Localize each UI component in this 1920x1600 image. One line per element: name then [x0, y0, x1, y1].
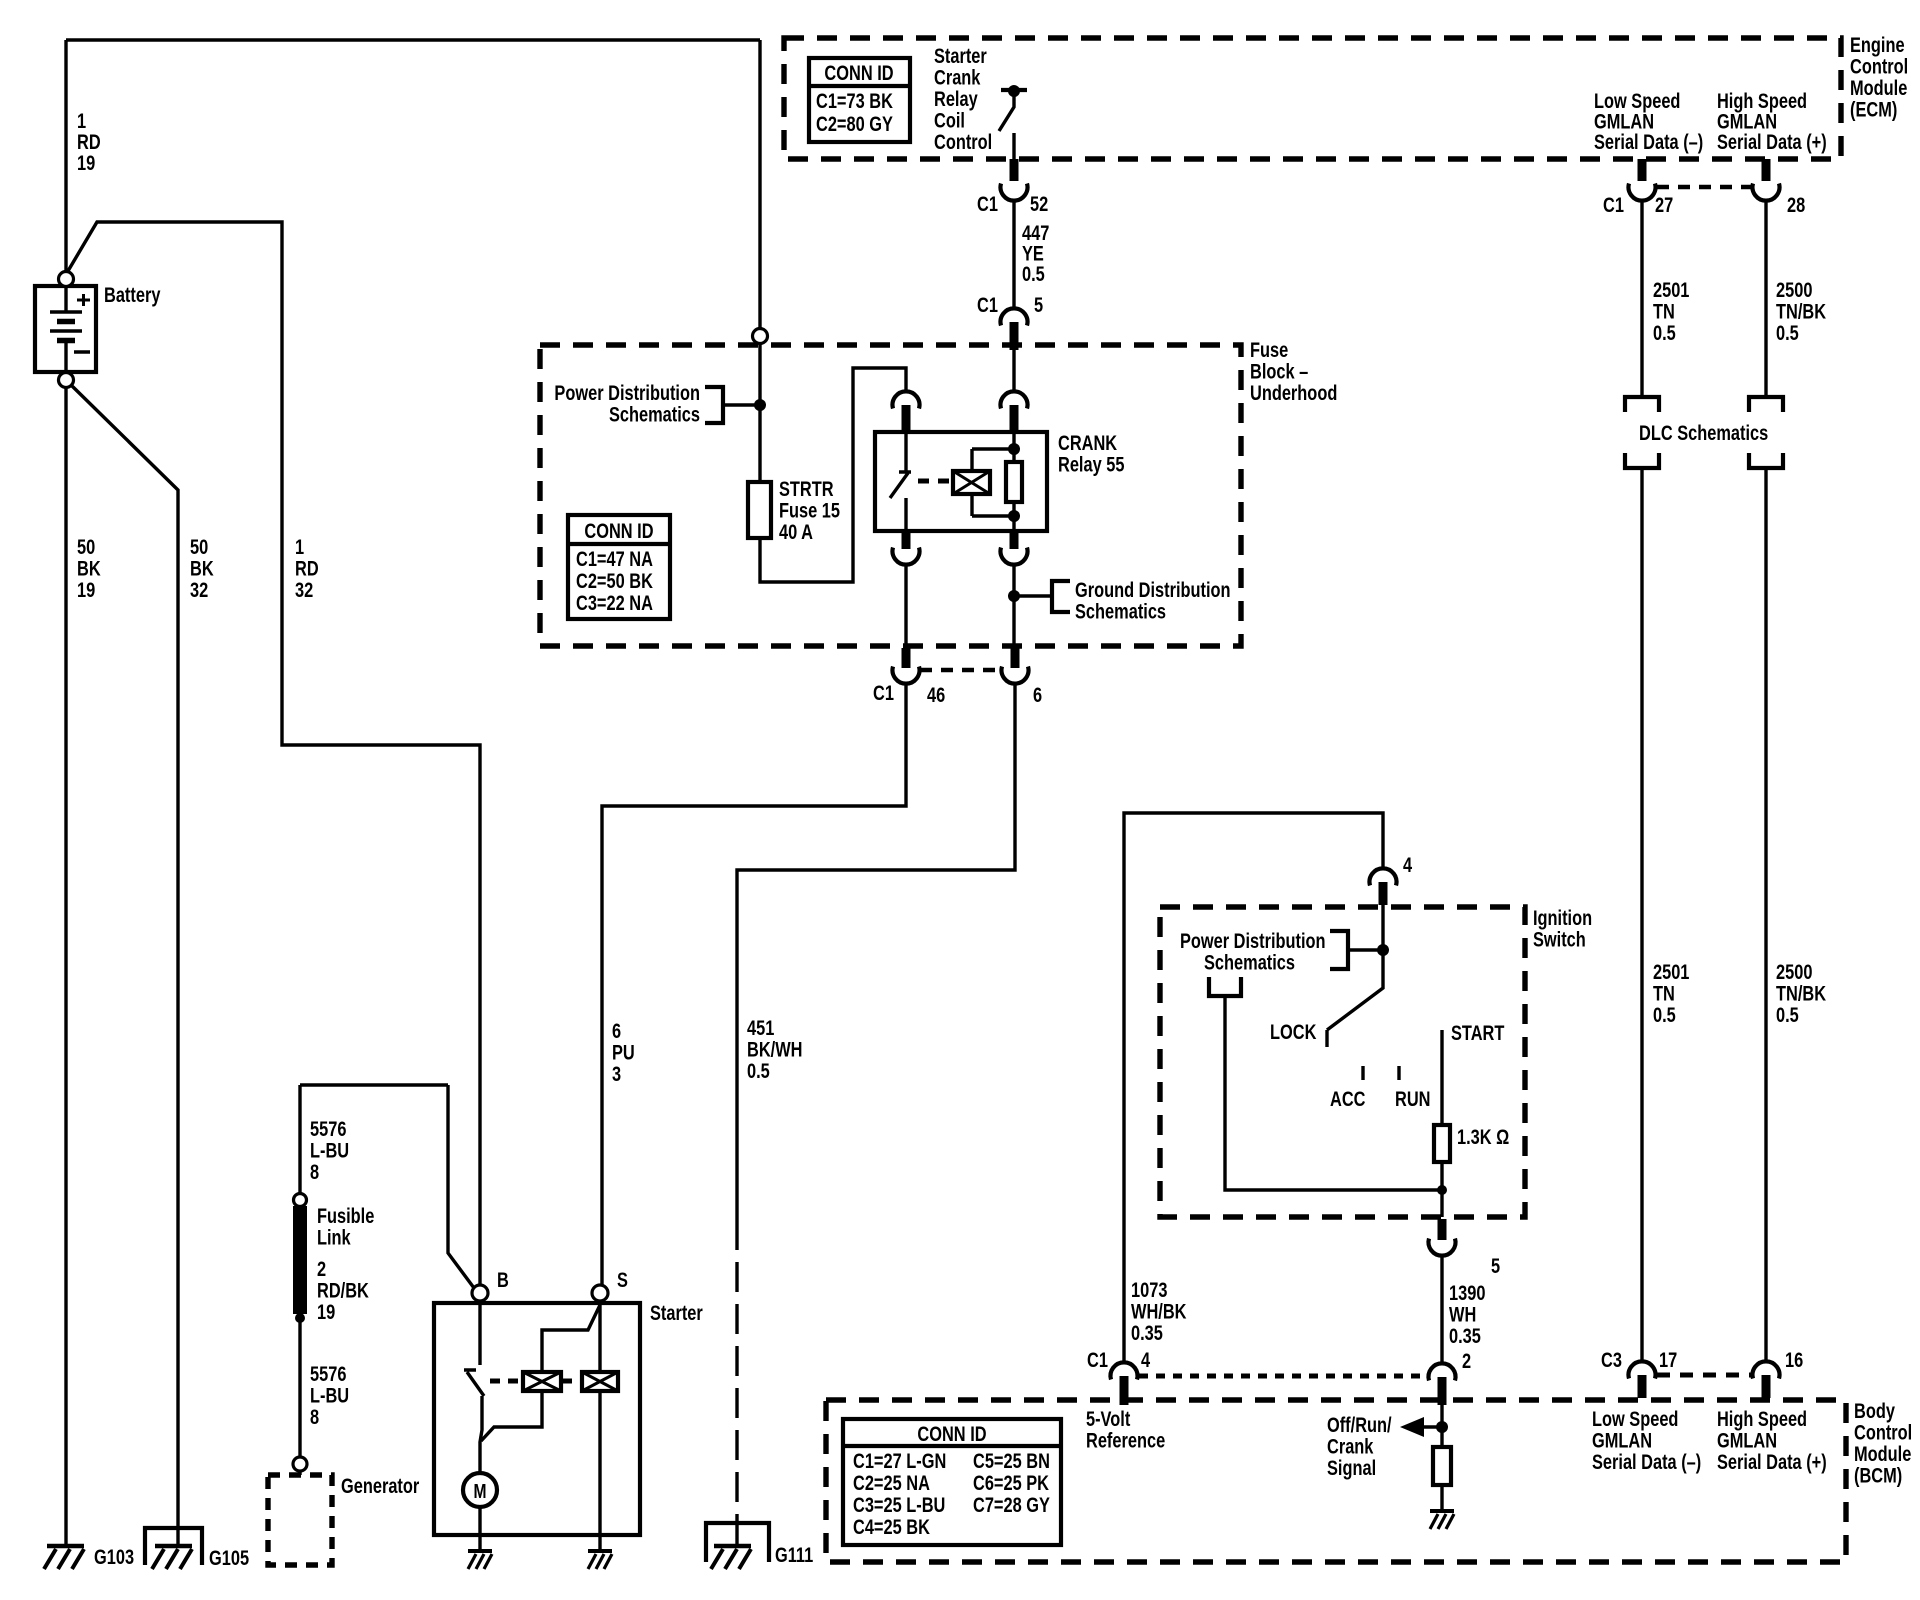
svg-text:0.5: 0.5	[747, 1059, 770, 1082]
svg-text:Module: Module	[1850, 76, 1907, 99]
svg-text:Battery: Battery	[104, 283, 161, 306]
svg-text:Serial Data (+): Serial Data (+)	[1717, 1450, 1827, 1473]
svg-text:Crank: Crank	[1327, 1435, 1374, 1458]
svg-text:5576: 5576	[310, 1117, 346, 1140]
svg-text:5-Volt: 5-Volt	[1086, 1407, 1131, 1430]
svg-text:Underhood: Underhood	[1250, 381, 1337, 404]
svg-text:BK: BK	[190, 557, 214, 580]
svg-text:0.5: 0.5	[1653, 1003, 1676, 1026]
svg-text:Schematics: Schematics	[609, 403, 700, 426]
svg-text:G103: G103	[94, 1545, 134, 1568]
svg-text:6: 6	[612, 1019, 621, 1042]
svg-text:C1: C1	[977, 192, 998, 215]
svg-text:3: 3	[612, 1062, 621, 1085]
svg-text:19: 19	[77, 151, 95, 174]
svg-text:32: 32	[190, 578, 208, 601]
svg-text:2: 2	[317, 1257, 326, 1280]
svg-text:16: 16	[1785, 1348, 1803, 1371]
svg-text:2501: 2501	[1653, 960, 1689, 983]
svg-text:RD: RD	[77, 130, 101, 153]
svg-text:Relay 55: Relay 55	[1058, 453, 1124, 476]
svg-text:TN/BK: TN/BK	[1776, 300, 1826, 323]
svg-text:Power Distribution: Power Distribution	[1180, 929, 1326, 952]
svg-text:1: 1	[77, 109, 86, 132]
svg-text:0.5: 0.5	[1776, 1003, 1799, 1026]
svg-text:CONN ID: CONN ID	[917, 1422, 986, 1445]
svg-text:2501: 2501	[1653, 278, 1689, 301]
svg-text:Starter: Starter	[650, 1301, 703, 1324]
svg-text:0.35: 0.35	[1131, 1321, 1163, 1344]
svg-text:C1=27 L-GN: C1=27 L-GN	[853, 1449, 946, 1472]
svg-text:Signal: Signal	[1327, 1456, 1376, 1479]
svg-text:M: M	[474, 1480, 487, 1502]
svg-text:C1: C1	[1603, 193, 1624, 216]
svg-text:C3=22 NA: C3=22 NA	[576, 591, 653, 614]
svg-text:0.5: 0.5	[1653, 321, 1676, 344]
svg-text:C6=25 PK: C6=25 PK	[973, 1471, 1049, 1494]
svg-text:ACC: ACC	[1330, 1087, 1366, 1110]
svg-text:Module: Module	[1854, 1442, 1911, 1465]
svg-text:L-BU: L-BU	[310, 1139, 349, 1162]
svg-text:2: 2	[1462, 1349, 1471, 1372]
svg-text:TN: TN	[1653, 300, 1675, 323]
svg-text:RUN: RUN	[1395, 1087, 1430, 1110]
svg-text:Serial Data (–): Serial Data (–)	[1592, 1450, 1701, 1473]
svg-text:B: B	[497, 1268, 509, 1291]
svg-text:Fusible: Fusible	[317, 1204, 374, 1227]
svg-text:CRANK: CRANK	[1058, 431, 1117, 454]
svg-text:4: 4	[1141, 1348, 1151, 1371]
svg-text:32: 32	[295, 578, 313, 601]
svg-text:C1: C1	[1087, 1348, 1108, 1371]
svg-text:TN: TN	[1653, 982, 1675, 1005]
svg-text:C5=25 BN: C5=25 BN	[973, 1449, 1050, 1472]
svg-text:6: 6	[1033, 683, 1042, 706]
svg-text:28: 28	[1787, 193, 1805, 216]
svg-text:TN/BK: TN/BK	[1776, 982, 1826, 1005]
svg-text:LOCK: LOCK	[1270, 1020, 1317, 1043]
svg-text:G111: G111	[775, 1543, 813, 1566]
svg-text:CONN ID: CONN ID	[584, 519, 653, 542]
svg-text:Low Speed: Low Speed	[1592, 1407, 1678, 1430]
svg-text:Control: Control	[1850, 55, 1908, 78]
svg-text:2500: 2500	[1776, 960, 1812, 983]
svg-text:17: 17	[1659, 1348, 1677, 1371]
svg-text:Power Distribution: Power Distribution	[554, 381, 700, 404]
svg-text:S: S	[617, 1268, 628, 1291]
svg-text:Ignition: Ignition	[1533, 906, 1592, 929]
svg-text:GMLAN: GMLAN	[1592, 1429, 1652, 1452]
svg-text:Body: Body	[1854, 1399, 1895, 1422]
svg-text:G105: G105	[209, 1546, 249, 1569]
svg-text:C1=73 BK: C1=73 BK	[816, 89, 893, 112]
svg-text:Generator: Generator	[341, 1474, 420, 1497]
svg-text:Schematics: Schematics	[1204, 951, 1295, 974]
svg-text:DLC Schematics: DLC Schematics	[1639, 421, 1768, 444]
svg-text:Block –: Block –	[1250, 360, 1308, 383]
svg-text:C2=50 BK: C2=50 BK	[576, 569, 653, 592]
svg-text:C2=25 NA: C2=25 NA	[853, 1471, 930, 1494]
svg-text:Link: Link	[317, 1226, 351, 1249]
svg-text:0.5: 0.5	[1022, 262, 1045, 285]
svg-text:1.3K Ω: 1.3K Ω	[1457, 1125, 1509, 1148]
svg-text:C7=28 GY: C7=28 GY	[973, 1493, 1050, 1516]
svg-text:5576: 5576	[310, 1362, 346, 1385]
svg-text:1073: 1073	[1131, 1278, 1167, 1301]
svg-text:C1=47 NA: C1=47 NA	[576, 547, 653, 570]
svg-text:GMLAN: GMLAN	[1717, 1429, 1777, 1452]
svg-text:Starter: Starter	[934, 44, 987, 67]
svg-text:19: 19	[317, 1300, 335, 1323]
svg-text:0.35: 0.35	[1449, 1324, 1481, 1347]
svg-text:START: START	[1451, 1021, 1505, 1044]
svg-text:(ECM): (ECM)	[1850, 98, 1897, 121]
svg-text:C1: C1	[873, 681, 894, 704]
svg-text:RD/BK: RD/BK	[317, 1279, 369, 1302]
svg-text:Engine: Engine	[1850, 33, 1905, 56]
svg-text:0.5: 0.5	[1776, 321, 1799, 344]
svg-text:RD: RD	[295, 557, 319, 580]
svg-text:Control: Control	[1854, 1421, 1912, 1444]
svg-text:5: 5	[1034, 293, 1043, 316]
svg-text:STRTR: STRTR	[779, 477, 834, 500]
svg-text:52: 52	[1030, 192, 1048, 215]
svg-text:High Speed: High Speed	[1717, 1407, 1807, 1430]
svg-text:4: 4	[1403, 853, 1413, 876]
svg-text:Ground Distribution: Ground Distribution	[1075, 578, 1231, 601]
svg-text:C3=25 L-BU: C3=25 L-BU	[853, 1493, 945, 1516]
svg-text:Switch: Switch	[1533, 928, 1586, 951]
svg-text:8: 8	[310, 1160, 319, 1183]
svg-text:46: 46	[927, 683, 945, 706]
svg-text:27: 27	[1655, 193, 1673, 216]
svg-text:C3: C3	[1601, 1348, 1622, 1371]
svg-text:5: 5	[1491, 1254, 1500, 1277]
svg-text:Schematics: Schematics	[1075, 600, 1166, 623]
svg-text:Relay: Relay	[934, 87, 978, 110]
svg-text:BK: BK	[77, 557, 101, 580]
svg-text:CONN ID: CONN ID	[824, 61, 893, 84]
svg-text:BK/WH: BK/WH	[747, 1038, 802, 1061]
svg-text:50: 50	[77, 535, 95, 558]
svg-text:C4=25 BK: C4=25 BK	[853, 1515, 930, 1538]
svg-text:1: 1	[295, 535, 304, 558]
svg-text:Crank: Crank	[934, 66, 981, 89]
svg-text:Serial Data (+): Serial Data (+)	[1717, 130, 1827, 153]
svg-text:50: 50	[190, 535, 208, 558]
svg-text:8: 8	[310, 1405, 319, 1428]
svg-text:Control: Control	[934, 130, 992, 153]
svg-text:Fuse 15: Fuse 15	[779, 499, 840, 522]
svg-text:WH/BK: WH/BK	[1131, 1300, 1187, 1323]
svg-text:19: 19	[77, 578, 95, 601]
svg-text:(BCM): (BCM)	[1854, 1464, 1902, 1487]
svg-text:Coil: Coil	[934, 109, 965, 132]
svg-text:Reference: Reference	[1086, 1429, 1165, 1452]
svg-text:PU: PU	[612, 1041, 635, 1064]
svg-text:Off/Run/: Off/Run/	[1327, 1413, 1392, 1436]
svg-text:40 A: 40 A	[779, 520, 813, 543]
svg-text:C2=80 GY: C2=80 GY	[816, 112, 893, 135]
svg-text:2500: 2500	[1776, 278, 1812, 301]
svg-text:L-BU: L-BU	[310, 1384, 349, 1407]
svg-text:WH: WH	[1449, 1303, 1476, 1326]
svg-text:451: 451	[747, 1016, 774, 1039]
svg-text:Serial Data (–): Serial Data (–)	[1594, 130, 1703, 153]
svg-text:Fuse: Fuse	[1250, 338, 1288, 361]
svg-text:1390: 1390	[1449, 1281, 1485, 1304]
svg-text:C1: C1	[977, 293, 998, 316]
